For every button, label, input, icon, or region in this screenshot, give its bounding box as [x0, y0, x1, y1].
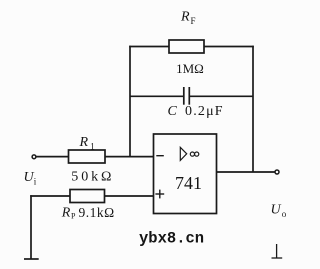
ground (right) symbol [272, 244, 283, 258]
wire: RP corner horizontal to RP [30, 195, 70, 197]
op-amp infinity symbol [190, 152, 199, 156]
op-amp U1 741 body [154, 134, 217, 214]
resistor RP body [70, 190, 105, 203]
svg-text:1MΩ: 1MΩ [176, 61, 204, 76]
wire: input terminal to R1 [36, 156, 69, 158]
wire: left feedback vertical [129, 46, 131, 157]
svg-text:C: C [168, 104, 178, 119]
svg-text:1: 1 [90, 142, 95, 152]
wire: RP to non-inverting input [105, 195, 154, 197]
svg-text:P: P [71, 212, 76, 221]
input terminal Ui circle [32, 155, 36, 159]
svg-text:i: i [34, 177, 37, 187]
svg-text:U: U [271, 203, 282, 218]
resistor R1 body [69, 150, 106, 163]
wire: right feedback vertical [252, 46, 254, 172]
svg-text:0.2μF: 0.2μF [185, 104, 224, 119]
svg-text:50kΩ: 50kΩ [71, 170, 114, 185]
op-amp gain triangle symbol [180, 147, 186, 160]
wire: top feedback rail left segment [129, 46, 169, 48]
op-amp inverting input marker (minus) [156, 155, 164, 157]
wire: capacitor rail left [130, 95, 183, 97]
svg-text:9.1kΩ: 9.1kΩ [79, 205, 115, 220]
svg-text:R: R [180, 10, 190, 25]
wire: top feedback rail right segment [204, 46, 254, 48]
svg-text:R: R [61, 206, 71, 221]
wire: vertical drop from RP corner to ground [30, 195, 32, 259]
svg-text:ybx8.cn: ybx8.cn [139, 230, 204, 248]
capacitor C left plate [183, 87, 185, 105]
output terminal Uo circle [275, 170, 279, 174]
svg-text:741: 741 [175, 173, 202, 193]
resistor RF body [169, 40, 204, 53]
ground (left) bar [24, 258, 39, 260]
svg-text:o: o [282, 209, 287, 219]
svg-text:R: R [79, 135, 89, 150]
wire: op-amp output [217, 171, 276, 173]
svg-text:F: F [191, 16, 196, 26]
wire: capacitor rail right [190, 95, 253, 97]
capacitor C right plate [188, 87, 190, 105]
op-amp non-inverting input marker (plus) [155, 190, 164, 199]
wire: R1 to inverting input [105, 156, 154, 158]
